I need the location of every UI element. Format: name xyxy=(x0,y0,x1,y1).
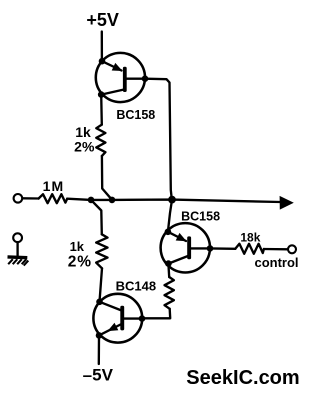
svg-text:BC158: BC158 xyxy=(116,108,155,122)
svg-text:1k: 1k xyxy=(70,239,85,254)
svg-text:2%: 2% xyxy=(74,138,95,154)
svg-text:–5V: –5V xyxy=(83,365,114,384)
svg-text:+5V: +5V xyxy=(86,10,119,30)
svg-text:1M: 1M xyxy=(43,178,65,194)
svg-text:control: control xyxy=(254,255,298,270)
svg-text:18k: 18k xyxy=(240,231,260,245)
svg-text:2%: 2% xyxy=(68,254,92,271)
svg-text:SeekIC.com: SeekIC.com xyxy=(186,367,299,389)
svg-text:BC158: BC158 xyxy=(181,210,220,224)
svg-text:BC148: BC148 xyxy=(116,279,156,294)
